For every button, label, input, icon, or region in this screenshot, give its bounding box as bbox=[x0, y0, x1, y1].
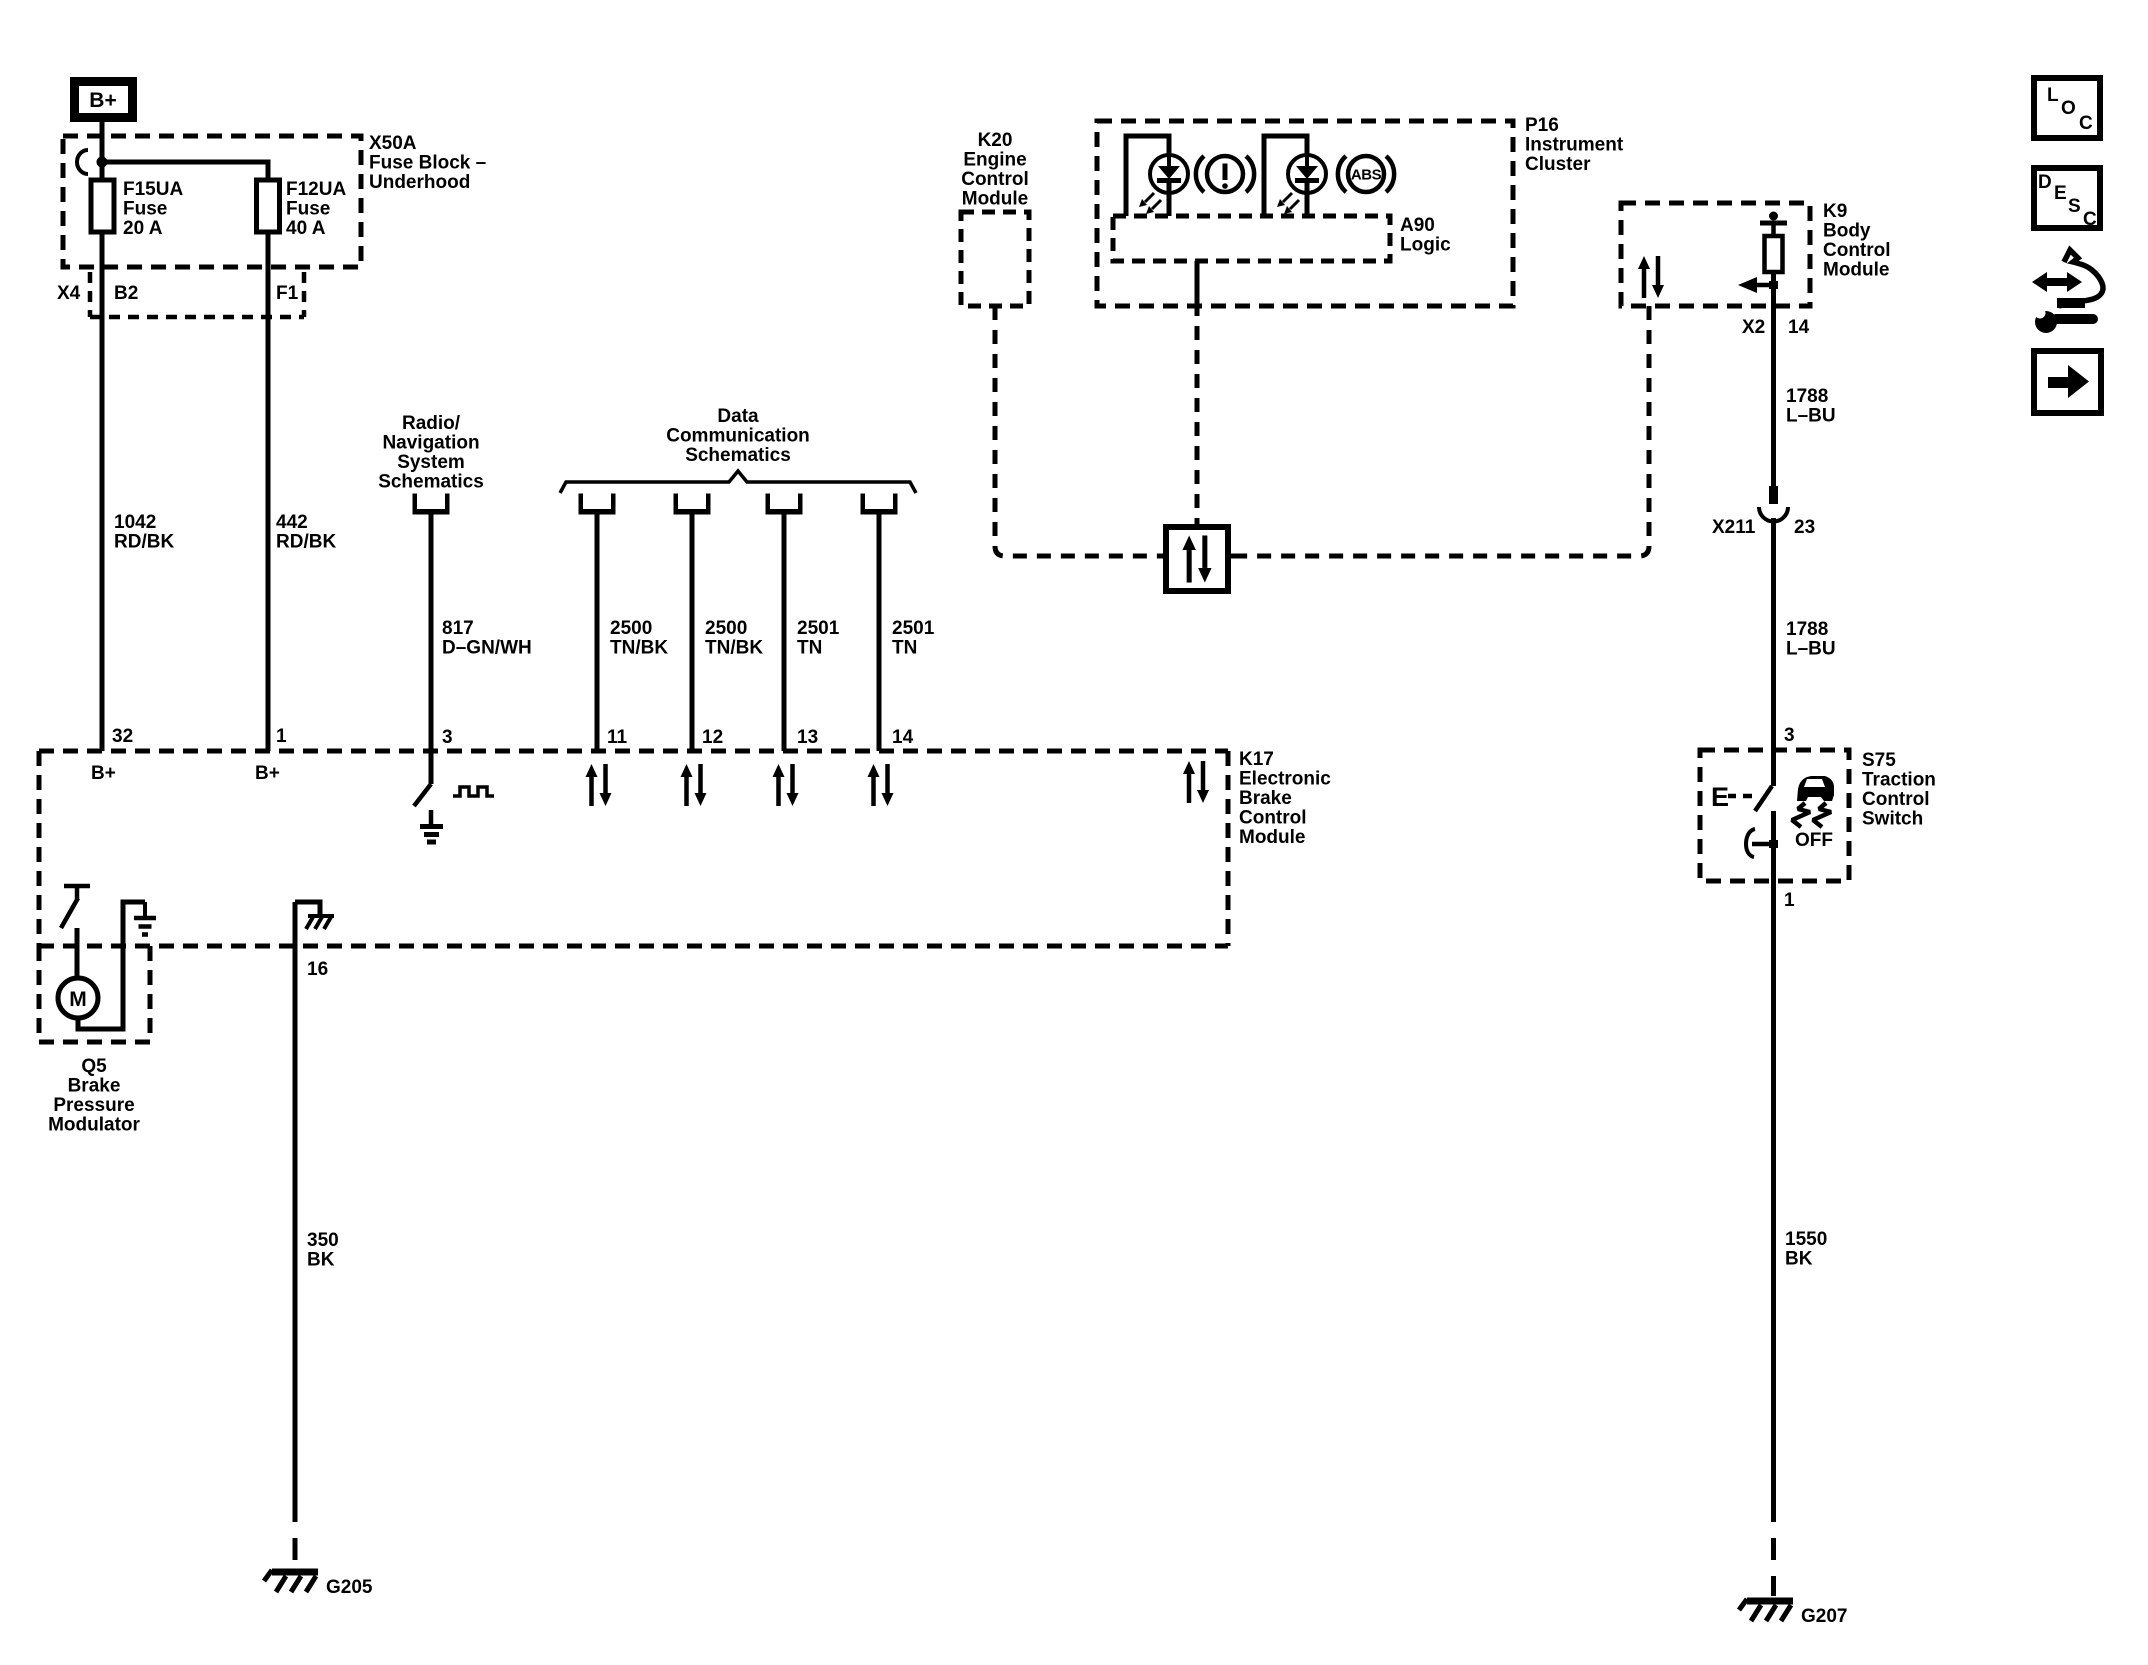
svg-text:1550: 1550 bbox=[1785, 1229, 1827, 1250]
svg-text:2500: 2500 bbox=[610, 618, 652, 639]
label F12UA Fuse 40 A bbox=[286, 179, 346, 239]
svg-text:11: 11 bbox=[607, 727, 628, 748]
module Q5 Brake Pressure Modulator outline bbox=[39, 946, 150, 1042]
svg-text:System: System bbox=[397, 452, 465, 473]
serial data arrows (pin 14) bbox=[868, 764, 894, 806]
battery feed B+ terminal bbox=[75, 82, 133, 118]
label wire 442 RD/BK bbox=[276, 512, 336, 553]
wire blade to pin 1 bbox=[1771, 811, 1776, 881]
indicator lamp brake warning (LED) bbox=[1126, 136, 1188, 216]
icon harness service (arrow, clip, wrench) bbox=[2032, 250, 2103, 333]
fuse block X50A outline bbox=[63, 136, 361, 267]
off-page connector (pin 14) bbox=[861, 494, 898, 515]
svg-text:16: 16 bbox=[307, 959, 328, 980]
wire 1550 BK bbox=[1771, 881, 1776, 1596]
signal arrow (input) bbox=[1738, 277, 1778, 293]
svg-text:D–GN/WH: D–GN/WH bbox=[442, 638, 532, 659]
svg-text:TN: TN bbox=[797, 638, 822, 659]
svg-text:3: 3 bbox=[442, 727, 453, 748]
module K9 Body Control Module outline bbox=[1621, 203, 1810, 306]
svg-text:D: D bbox=[2038, 172, 2052, 193]
svg-text:P16: P16 bbox=[1525, 115, 1559, 136]
label wire 2500 TN/BK (pin 11) bbox=[610, 618, 668, 659]
pulse signal symbol bbox=[453, 787, 494, 796]
svg-text:Control: Control bbox=[1862, 789, 1930, 810]
svg-text:F12UA: F12UA bbox=[286, 179, 346, 200]
svg-text:K17: K17 bbox=[1239, 749, 1274, 770]
ground G207 bbox=[1739, 1599, 1847, 1627]
fuse F12UA bbox=[257, 180, 280, 232]
svg-text:Control: Control bbox=[1239, 808, 1307, 829]
svg-text:C: C bbox=[2083, 209, 2097, 230]
icon LOC bbox=[2034, 78, 2100, 138]
svg-text:23: 23 bbox=[1794, 517, 1815, 538]
svg-text:12: 12 bbox=[702, 727, 723, 748]
svg-text:Control: Control bbox=[961, 169, 1029, 190]
label wire 350 BK bbox=[307, 1230, 339, 1271]
serial data arrows (K9) bbox=[1638, 256, 1664, 298]
svg-text:Schematics: Schematics bbox=[685, 445, 791, 466]
svg-text:B2: B2 bbox=[114, 283, 138, 304]
svg-text:3: 3 bbox=[1784, 725, 1795, 746]
svg-text:TN/BK: TN/BK bbox=[705, 638, 763, 659]
label wire 2500 TN/BK (pin 12) bbox=[705, 618, 763, 659]
serial data wire A90 to gateway bbox=[1195, 261, 1200, 527]
icon forward arrow bbox=[2034, 351, 2101, 413]
serial data wire K20 to gateway bbox=[995, 306, 1158, 556]
traction control car icon bbox=[1792, 776, 1834, 827]
svg-text:ABS: ABS bbox=[1351, 167, 1382, 184]
wire resistor to pin 14 bbox=[1771, 272, 1776, 486]
serial data arrows (pin 13) bbox=[773, 764, 799, 806]
wire motor to internal ground bbox=[78, 902, 145, 1029]
label Radio/Navigation System Schematics bbox=[378, 413, 484, 493]
svg-text:RD/BK: RD/BK bbox=[114, 532, 174, 553]
svg-text:Data: Data bbox=[717, 406, 759, 427]
wire ground pin 16 bbox=[293, 902, 298, 1500]
svg-text:Switch: Switch bbox=[1862, 809, 1923, 830]
svg-text:Modulator: Modulator bbox=[48, 1115, 140, 1136]
connector arc at X50A feed bbox=[77, 150, 88, 174]
module P16 Instrument Cluster outline bbox=[1097, 121, 1513, 306]
svg-text:Instrument: Instrument bbox=[1525, 135, 1624, 156]
svg-text:Body: Body bbox=[1823, 221, 1871, 242]
svg-text:F1: F1 bbox=[276, 283, 299, 304]
svg-text:RD/BK: RD/BK bbox=[276, 532, 336, 553]
brace bbox=[560, 471, 916, 493]
svg-text:A90: A90 bbox=[1400, 215, 1435, 236]
svg-text:Traction: Traction bbox=[1862, 770, 1936, 791]
inline connector X211 pin 23 bbox=[1712, 486, 1815, 538]
svg-text:14: 14 bbox=[892, 727, 914, 748]
svg-text:L–BU: L–BU bbox=[1786, 639, 1836, 660]
svg-text:K20: K20 bbox=[978, 130, 1013, 151]
label wire 1550 BK bbox=[1785, 1229, 1827, 1270]
label wire 2501 TN (pin 14) bbox=[892, 618, 935, 659]
switch blade and E contact bbox=[1711, 782, 1772, 812]
label wire 2501 TN (pin 13) bbox=[797, 618, 840, 659]
svg-text:B+: B+ bbox=[255, 763, 280, 784]
svg-text:Brake: Brake bbox=[68, 1076, 121, 1097]
svg-text:K9: K9 bbox=[1823, 201, 1847, 222]
svg-text:Control: Control bbox=[1823, 240, 1891, 261]
svg-text:Communication: Communication bbox=[666, 426, 810, 447]
label S75 Traction Control Switch bbox=[1862, 750, 1936, 830]
junction node bbox=[97, 157, 108, 168]
wire 2501 TN (pin 13) bbox=[782, 514, 787, 751]
off-page connector (radio/navigation) bbox=[413, 494, 450, 515]
svg-text:BK: BK bbox=[307, 1250, 335, 1271]
wire branch to fuse F12UA circuit 442 bbox=[102, 162, 268, 751]
internal voltage supply bbox=[1760, 212, 1787, 237]
svg-text:TN: TN bbox=[892, 638, 917, 659]
label K9 Body Control Module bbox=[1823, 201, 1891, 281]
wire 2500 TN/BK (pin 11) bbox=[595, 514, 600, 751]
svg-text:L–BU: L–BU bbox=[1786, 406, 1836, 427]
connector X4 row bbox=[57, 272, 304, 317]
switch (pump motor supply) bbox=[61, 886, 90, 978]
fuse F15UA bbox=[91, 180, 114, 232]
label Data Communication Schematics bbox=[666, 406, 810, 466]
module K17 Electronic Brake Control Module outline bbox=[39, 751, 1228, 946]
label K17 Electronic Brake Control Module bbox=[1239, 749, 1331, 848]
indicator lamp ABS (LED) bbox=[1264, 136, 1326, 216]
svg-text:O: O bbox=[2061, 98, 2076, 119]
off-page connector (pin 11) bbox=[579, 494, 616, 515]
brake warning symbol (!) bbox=[1196, 156, 1254, 192]
switch S75 Traction Control Switch outline bbox=[1700, 750, 1849, 881]
ground (Q5 internal) bbox=[134, 902, 156, 935]
svg-text:Module: Module bbox=[962, 189, 1029, 210]
svg-text:L: L bbox=[2047, 85, 2059, 106]
serial data arrows (pin 12) bbox=[681, 764, 707, 806]
label wire 1042 RD/BK bbox=[114, 512, 174, 553]
svg-text:E: E bbox=[2054, 183, 2067, 204]
svg-text:14: 14 bbox=[1788, 317, 1810, 338]
svg-text:13: 13 bbox=[797, 727, 818, 748]
svg-text:Schematics: Schematics bbox=[378, 472, 484, 493]
label A90 Logic bbox=[1400, 215, 1451, 256]
svg-text:1788: 1788 bbox=[1786, 386, 1828, 407]
logic block A90 bbox=[1113, 216, 1390, 261]
svg-text:E: E bbox=[1711, 782, 1729, 812]
wire B+ feed vertical circuit 1042 bbox=[100, 122, 105, 751]
serial data arrows (K17 right) bbox=[1183, 761, 1209, 803]
label wire 1788 L-BU (upper) bbox=[1786, 386, 1836, 427]
svg-text:X211: X211 bbox=[1712, 517, 1756, 538]
svg-text:Cluster: Cluster bbox=[1525, 154, 1591, 175]
label Q5 Brake Pressure Modulator bbox=[48, 1056, 140, 1136]
svg-text:Radio/: Radio/ bbox=[402, 413, 461, 434]
ground G205 bbox=[264, 1570, 373, 1598]
off-page connector (pin 13) bbox=[766, 494, 803, 515]
label wire 1788 L-BU (lower) bbox=[1786, 619, 1836, 660]
svg-text:Navigation: Navigation bbox=[382, 433, 479, 454]
svg-text:2501: 2501 bbox=[797, 618, 840, 639]
svg-text:442: 442 bbox=[276, 512, 308, 533]
switch to ground (pin 3 internal) bbox=[414, 751, 443, 842]
svg-text:Fuse: Fuse bbox=[286, 199, 330, 220]
svg-text:40 A: 40 A bbox=[286, 218, 326, 239]
svg-text:Fuse Block –: Fuse Block – bbox=[369, 153, 486, 174]
label X50A Fuse Block - Underhood bbox=[369, 133, 486, 193]
svg-text:C: C bbox=[2079, 113, 2093, 134]
svg-text:1: 1 bbox=[276, 726, 287, 747]
svg-text:F15UA: F15UA bbox=[123, 179, 183, 200]
svg-text:OFF: OFF bbox=[1795, 830, 1833, 851]
svg-text:20 A: 20 A bbox=[123, 218, 163, 239]
svg-text:G205: G205 bbox=[326, 1577, 373, 1598]
motor M (pump) bbox=[58, 978, 98, 1018]
svg-text:TN/BK: TN/BK bbox=[610, 638, 668, 659]
svg-text:X2: X2 bbox=[1742, 317, 1765, 338]
svg-text:Underhood: Underhood bbox=[369, 172, 470, 193]
label K20 Engine Control Module bbox=[961, 130, 1029, 210]
svg-text:X50A: X50A bbox=[369, 133, 417, 154]
svg-text:S75: S75 bbox=[1862, 750, 1896, 771]
svg-text:BK: BK bbox=[1785, 1249, 1813, 1270]
svg-text:1042: 1042 bbox=[114, 512, 156, 533]
svg-text:Module: Module bbox=[1239, 827, 1306, 848]
wire 2500 TN/BK (pin 12) bbox=[690, 514, 695, 751]
svg-text:817: 817 bbox=[442, 618, 474, 639]
serial data arrows (pin 11) bbox=[586, 764, 612, 806]
svg-text:B+: B+ bbox=[89, 89, 116, 112]
serial data gateway bbox=[1158, 527, 1237, 591]
svg-text:Fuse: Fuse bbox=[123, 199, 167, 220]
icon DESC bbox=[2034, 168, 2100, 230]
svg-text:Engine: Engine bbox=[963, 150, 1026, 171]
svg-text:Pressure: Pressure bbox=[53, 1095, 134, 1116]
wire 2501 TN (pin 14) bbox=[877, 514, 882, 751]
wire 817 D-GN/WH bbox=[429, 514, 434, 751]
svg-text:B+: B+ bbox=[91, 763, 116, 784]
svg-text:1788: 1788 bbox=[1786, 619, 1828, 640]
resistor (pull-up) bbox=[1765, 236, 1783, 272]
wire 1788 L-BU (lower) bbox=[1771, 518, 1776, 786]
svg-text:2500: 2500 bbox=[705, 618, 747, 639]
svg-text:1: 1 bbox=[1784, 890, 1795, 911]
svg-text:Q5: Q5 bbox=[81, 1056, 107, 1077]
svg-text:G207: G207 bbox=[1801, 1606, 1847, 1627]
svg-text:350: 350 bbox=[307, 1230, 339, 1251]
svg-text:Electronic: Electronic bbox=[1239, 769, 1331, 790]
svg-text:X4: X4 bbox=[57, 283, 81, 304]
svg-text:32: 32 bbox=[112, 726, 133, 747]
svg-text:Logic: Logic bbox=[1400, 235, 1451, 256]
svg-text:2501: 2501 bbox=[892, 618, 935, 639]
ABS warning symbol bbox=[1338, 156, 1394, 192]
momentary contact hook bbox=[1746, 829, 1778, 857]
chassis ground (pin 16 internal) bbox=[295, 902, 334, 929]
svg-text:S: S bbox=[2068, 196, 2081, 217]
label wire 817 D-GN/WH bbox=[442, 618, 532, 659]
svg-text:Brake: Brake bbox=[1239, 788, 1292, 809]
off-page connector (pin 12) bbox=[674, 494, 711, 515]
serial data dashed wire K9 to gateway bbox=[1237, 306, 1649, 556]
connector X2 pin 14 labels bbox=[1742, 317, 1810, 338]
svg-text:Module: Module bbox=[1823, 260, 1890, 281]
label F15UA Fuse 20 A bbox=[123, 179, 183, 239]
module K20 outline bbox=[961, 212, 1029, 306]
svg-text:M: M bbox=[69, 988, 87, 1011]
label P16 Instrument Cluster bbox=[1525, 115, 1624, 175]
